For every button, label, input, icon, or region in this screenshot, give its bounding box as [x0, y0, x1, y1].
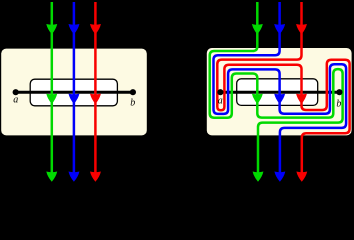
svg-text:a: a: [13, 94, 18, 105]
svg-text:a: a: [218, 95, 223, 106]
svg-text:b: b: [336, 99, 341, 110]
svg-text:b: b: [130, 97, 135, 108]
